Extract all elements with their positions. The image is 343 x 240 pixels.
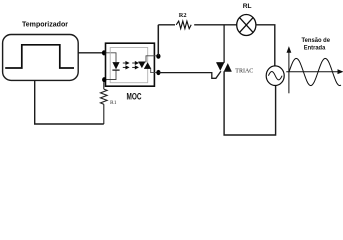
svg-text:R1: R1	[110, 100, 117, 106]
optocoupler U1 outer box	[106, 43, 155, 86]
wire top rail down to triac MT2	[223, 25, 225, 63]
svg-text:TRIAC: TRIAC	[235, 68, 253, 74]
timer block U? (rounded box)	[3, 35, 79, 81]
resistor R1	[101, 82, 108, 124]
wire photo-triac bottom to node D	[151, 69, 159, 73]
light arrow 1	[123, 62, 129, 65]
node C junction dot	[156, 54, 160, 59]
graph horizontal axis with arrow	[286, 70, 342, 73]
wire LED cathode to node B	[104, 71, 116, 80]
light arrow 2	[123, 66, 129, 69]
LED D1 (emitter)	[112, 62, 119, 69]
wire gate from node D to triac	[158, 71, 221, 78]
wire top rail left segment	[158, 24, 175, 26]
square-wave pulse symbol inside timer	[5, 45, 74, 68]
svg-text:RL: RL	[243, 3, 252, 10]
node A junction dot	[102, 50, 106, 55]
resistor R2	[176, 21, 191, 29]
optocoupler inner box	[110, 48, 148, 83]
svg-text:Entrada: Entrada	[304, 45, 326, 52]
light arrow 4	[132, 66, 138, 69]
AC source V1	[266, 66, 284, 86]
photo-triac Q1 inside optocoupler	[138, 62, 151, 68]
wire photo-triac top to node C	[146, 56, 158, 62]
wire timer bottom to R1 bottom	[35, 80, 104, 124]
wire timer output to node A	[78, 52, 104, 54]
input voltage sine waveform	[289, 58, 341, 85]
wire lamp to right corner and down to AC source	[256, 25, 275, 66]
svg-text:MOC: MOC	[127, 90, 142, 101]
lamp RL	[237, 15, 256, 36]
wire top rail middle segment	[194, 24, 237, 26]
svg-text:Tensão de: Tensão de	[302, 37, 331, 44]
svg-text:R2: R2	[179, 12, 187, 19]
graph vertical axis with arrow	[287, 48, 290, 94]
triac Q2	[216, 63, 231, 71]
node D junction dot	[156, 70, 160, 75]
svg-text:Temporizador: Temporizador	[22, 20, 68, 29]
wire triac MT1 down and across to AC source bottom	[224, 71, 276, 135]
wire node A to LED anode	[106, 53, 117, 62]
light arrow 3	[132, 62, 138, 65]
wire node C up to top rail	[157, 25, 159, 56]
node B junction dot	[102, 77, 106, 82]
